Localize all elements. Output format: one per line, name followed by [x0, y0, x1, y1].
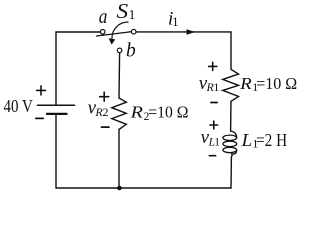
- switch S1 blade: [97, 32, 132, 36]
- wire right vertical from corner to R1: [230, 32, 232, 69]
- svg-text:=10 Ω: =10 Ω: [148, 103, 188, 122]
- wire right vertical from L1 to bottom: [231, 154, 232, 188]
- svg-text:40 V: 40 V: [4, 96, 33, 116]
- svg-text:R: R: [239, 74, 252, 93]
- battery minus sign: [36, 117, 43, 119]
- battery V1 long plate (+): [38, 104, 75, 106]
- switch throw arrow (curved): [112, 22, 128, 39]
- svg-text:1: 1: [129, 7, 136, 22]
- wire middle vertical from b to R2: [118, 53, 121, 98]
- battery V1 short plate (-): [47, 113, 67, 115]
- junction node dot: [117, 186, 122, 191]
- svg-text:1: 1: [213, 80, 219, 94]
- wire left vertical lower (battery to bottom): [55, 115, 57, 188]
- inductor L1 entry curve: [231, 131, 237, 138]
- svg-text:L: L: [241, 130, 253, 150]
- L1 minus sign: [209, 155, 215, 157]
- svg-text:1: 1: [172, 14, 179, 29]
- inductor L1 exit curve: [232, 150, 237, 154]
- wire top from switch pivot to right corner: [136, 31, 231, 33]
- svg-text:1: 1: [214, 137, 220, 149]
- R1 minus sign: [211, 102, 217, 104]
- wire left vertical upper (corner to battery): [55, 32, 57, 104]
- svg-text:=2 H: =2 H: [256, 130, 287, 150]
- inductor L1 loop 2: [223, 141, 237, 146]
- switch S1 pivot circle: [131, 29, 136, 34]
- resistor R1 zigzag: [223, 69, 239, 101]
- inductor L1 loop 3: [223, 147, 237, 152]
- svg-text:S: S: [117, 0, 129, 23]
- wire top from left corner to switch contact a: [56, 31, 100, 33]
- L1 plus sign: [210, 121, 218, 129]
- wire bottom: [56, 187, 231, 189]
- inductor L1 loop 1: [223, 135, 237, 140]
- switch S1 contact a circle: [100, 30, 105, 35]
- svg-text:=10 Ω: =10 Ω: [256, 74, 297, 93]
- wire middle vertical from R2 to bottom: [118, 130, 120, 189]
- svg-text:R: R: [129, 103, 143, 122]
- R2 plus sign: [100, 92, 109, 101]
- R1 plus sign: [209, 62, 217, 70]
- R2 minus sign: [102, 126, 110, 128]
- resistor R2 zigzag: [112, 98, 127, 130]
- wire right vertical from R1 to L1: [230, 101, 232, 131]
- battery plus sign: [37, 86, 46, 95]
- svg-text:a: a: [99, 6, 108, 28]
- svg-text:2: 2: [103, 105, 109, 119]
- current i1 arrowhead on top wire: [187, 29, 196, 34]
- svg-text:b: b: [126, 40, 136, 61]
- switch throw arrowhead: [109, 38, 116, 44]
- switch S1 contact b circle: [117, 48, 122, 53]
